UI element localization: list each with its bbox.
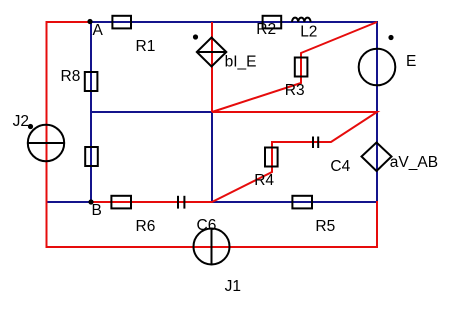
svg-text:R3: R3 <box>285 82 305 99</box>
svg-text:R1: R1 <box>136 38 156 55</box>
svg-text:R4: R4 <box>254 172 274 189</box>
svg-text:E: E <box>406 53 416 70</box>
svg-text:J1: J1 <box>225 278 241 295</box>
svg-text:R5: R5 <box>315 218 335 235</box>
svg-text:aV_AB: aV_AB <box>390 154 438 171</box>
svg-text:L2: L2 <box>300 24 317 41</box>
svg-text:R6: R6 <box>136 218 156 235</box>
svg-text:B: B <box>92 202 102 219</box>
svg-text:bI_E: bI_E <box>225 54 257 71</box>
svg-text:R2: R2 <box>256 21 276 38</box>
svg-text:J2: J2 <box>13 113 29 130</box>
svg-text:C6: C6 <box>197 217 217 234</box>
svg-text:R8: R8 <box>61 68 81 85</box>
svg-text:A: A <box>93 22 104 39</box>
svg-text:C4: C4 <box>330 158 350 175</box>
